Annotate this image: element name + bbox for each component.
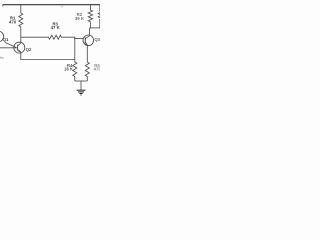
svg-text:bo: bo bbox=[0, 55, 4, 59]
svg-text:18 K: 18 K bbox=[64, 66, 74, 71]
svg-text:47 K: 47 K bbox=[51, 25, 61, 30]
svg-text:Q3: Q3 bbox=[94, 37, 100, 42]
svg-text:Q1: Q1 bbox=[3, 37, 9, 42]
svg-text:470: 470 bbox=[9, 20, 17, 25]
svg-text:39 K: 39 K bbox=[75, 16, 85, 21]
svg-text:470: 470 bbox=[94, 66, 100, 71]
svg-text:Q2: Q2 bbox=[26, 47, 32, 52]
